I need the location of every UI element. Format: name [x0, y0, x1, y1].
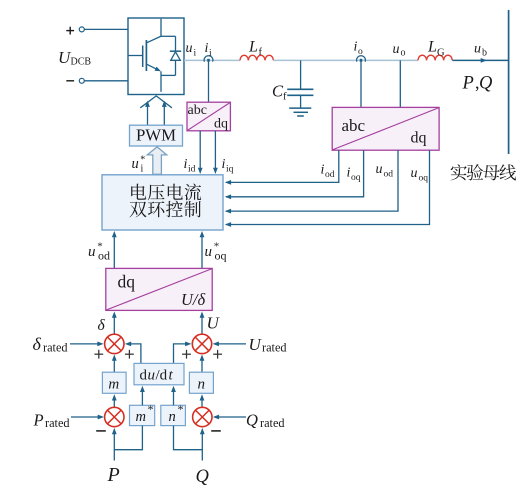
wire u_oq [226, 150, 430, 224]
svg-text:L: L [427, 39, 437, 56]
abc/dq transform 1 [187, 102, 230, 131]
DC negative terminal [66, 80, 74, 82]
wire u_oq* [201, 236, 203, 269]
svg-text:b: b [482, 48, 487, 59]
inverter bridge box [128, 18, 184, 95]
svg-text:i: i [205, 41, 209, 56]
wire i_id [199, 131, 201, 169]
svg-text:PWM: PWM [136, 126, 176, 145]
three-phase chevron under inverter [140, 96, 172, 108]
svg-text:U/δ: U/δ [181, 290, 206, 309]
svg-text:f: f [259, 47, 263, 58]
svg-text:oq: oq [215, 249, 227, 263]
wire i_iq [214, 131, 216, 169]
svg-text:/d: /d [156, 368, 168, 384]
svg-text:i: i [209, 49, 212, 59]
svg-text:u: u [411, 166, 418, 181]
wire DC+ to inverter [84, 28, 128, 30]
svg-text:f: f [283, 92, 287, 103]
wire LG to bus u_b [452, 59, 508, 61]
wire u_od [226, 150, 398, 211]
IGBT Q1 [160, 19, 162, 37]
svg-text:i: i [141, 164, 144, 175]
summing junction delta [105, 334, 124, 353]
svg-text:u: u [474, 42, 481, 57]
summing junction U [192, 334, 211, 353]
wire inverter AC output [184, 59, 240, 61]
voltage-current dual-loop control block [102, 175, 223, 230]
svg-text:d: d [140, 368, 148, 384]
current sensor i_i [204, 56, 213, 62]
capacitor C_f branch [300, 60, 302, 89]
svg-text:U: U [249, 335, 263, 354]
svg-text:u: u [393, 42, 400, 57]
svg-text:Q: Q [246, 411, 258, 430]
ground [289, 107, 311, 109]
svg-text:iq: iq [226, 165, 234, 175]
svg-text:i: i [222, 157, 226, 172]
svg-text:id: id [188, 165, 196, 175]
svg-text:*: * [178, 402, 184, 416]
svg-text:Q: Q [479, 74, 493, 94]
svg-text:dq: dq [214, 117, 228, 132]
svg-text:abc: abc [342, 116, 366, 135]
svg-text:U: U [207, 314, 221, 333]
freewheel diode D1 [175, 36, 177, 51]
svg-text:dq: dq [411, 130, 427, 147]
wire i_i tap to abc/dq [208, 62, 210, 103]
gain block m* [130, 405, 155, 425]
gain block n [201, 359, 203, 372]
svg-text:m: m [136, 409, 146, 425]
multiplier Q [201, 400, 203, 408]
svg-text:rated: rated [260, 416, 285, 430]
svg-text:rated: rated [45, 416, 70, 430]
wire P input [113, 432, 115, 460]
svg-text:n: n [169, 409, 176, 425]
svg-text:m: m [108, 377, 119, 393]
wire i_o tap to abc/dq2 [360, 62, 362, 108]
svg-text:u: u [205, 244, 213, 260]
svg-text:δ: δ [33, 334, 42, 354]
wire Lf to LG (filter bus) [273, 59, 418, 61]
svg-text:i: i [354, 40, 358, 55]
svg-text:rated: rated [43, 341, 68, 355]
svg-text:o: o [401, 48, 406, 59]
du/dt feedback wire left [130, 344, 141, 364]
wire U into block [201, 316, 203, 334]
svg-text:i: i [194, 49, 197, 59]
gain block m [113, 359, 115, 372]
svg-text:i: i [347, 166, 351, 181]
svg-text:P: P [33, 411, 44, 430]
svg-text:o: o [358, 47, 363, 57]
svg-text:i: i [321, 163, 325, 178]
svg-text:abc: abc [188, 103, 207, 118]
svg-text:L: L [248, 39, 258, 56]
experiment bus line [508, 10, 510, 154]
DC positive terminal [66, 30, 74, 32]
svg-text:n: n [197, 377, 205, 393]
wire DC- to inverter [84, 80, 128, 82]
wire Q input [201, 432, 203, 460]
multiplier P [113, 400, 115, 408]
svg-text:G: G [437, 48, 445, 59]
svg-text:P: P [107, 464, 120, 486]
svg-text:rated: rated [262, 341, 287, 355]
du/dt feedback wire right [174, 344, 187, 364]
svg-text:*: * [148, 402, 154, 416]
du/dt block [134, 363, 184, 384]
inductor L_f [240, 55, 273, 60]
svg-text:u: u [148, 368, 156, 384]
abc/dq transform 2 [332, 107, 439, 150]
svg-text:Q: Q [196, 467, 210, 487]
PWM gate wires [147, 104, 149, 125]
svg-text:oq: oq [351, 173, 361, 183]
node u_o tap [399, 60, 401, 107]
svg-text:DCB: DCB [71, 57, 92, 68]
current sensor i_o [357, 56, 366, 62]
svg-text:od: od [384, 170, 394, 180]
svg-text:dq: dq [118, 272, 136, 292]
wire delta into block [113, 316, 115, 334]
wire u_od* [113, 236, 115, 269]
svg-text:od: od [325, 170, 335, 180]
gain block n* [161, 405, 186, 425]
svg-text:P: P [462, 74, 474, 94]
svg-text:u: u [376, 162, 383, 177]
label 实验母线 [451, 164, 467, 180]
PWM block [130, 125, 183, 146]
svg-text:od: od [98, 249, 110, 263]
modulation block arrow u_i* [147, 147, 166, 174]
dq / U-delta block [106, 268, 212, 310]
svg-text:u: u [186, 41, 193, 56]
svg-text:u: u [132, 156, 139, 172]
svg-text:oq: oq [419, 174, 429, 184]
wire i_od [226, 150, 339, 182]
svg-text:i: i [184, 157, 188, 172]
svg-text:u: u [88, 244, 96, 260]
inductor L_G [418, 55, 452, 60]
svg-text:δ: δ [98, 317, 106, 334]
wire i_oq [226, 150, 364, 197]
